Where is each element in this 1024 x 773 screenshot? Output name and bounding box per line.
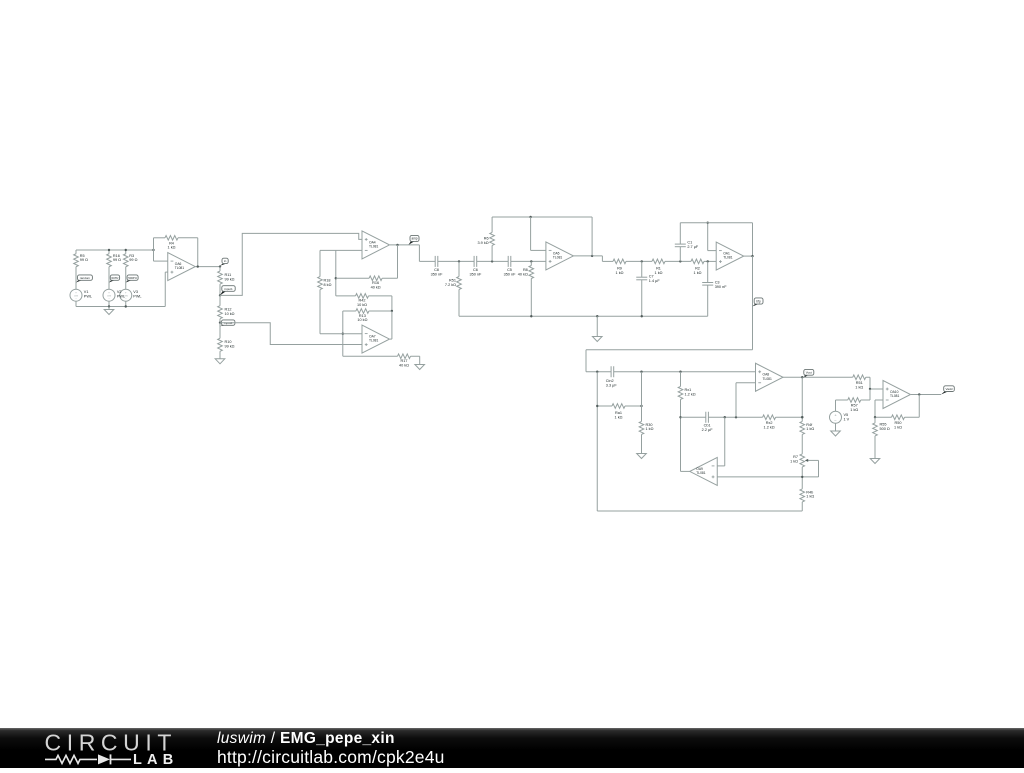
- svg-text:Rx2: Rx2: [766, 421, 773, 425]
- svg-text:TL081: TL081: [763, 377, 773, 381]
- svg-text:R1: R1: [656, 267, 661, 271]
- svg-text:R16: R16: [372, 281, 379, 285]
- svg-text:C8: C8: [434, 268, 439, 272]
- svg-text:R4b: R4b: [806, 490, 813, 494]
- svg-text:PWL: PWL: [133, 295, 141, 299]
- svg-text:R8: R8: [523, 268, 528, 272]
- svg-text:R6: R6: [484, 237, 489, 241]
- svg-text:input1: input1: [224, 287, 233, 291]
- svg-text:10 kΩ: 10 kΩ: [357, 318, 367, 322]
- svg-text:TL081: TL081: [890, 394, 900, 398]
- svg-text:3.9 kΩ: 3.9 kΩ: [478, 241, 489, 245]
- svg-text:PWL: PWL: [117, 295, 125, 299]
- svg-text:R16: R16: [113, 254, 120, 258]
- svg-text:R50: R50: [895, 421, 902, 425]
- svg-text:40 kΩ: 40 kΩ: [399, 364, 409, 368]
- svg-text:R17: R17: [401, 359, 408, 363]
- svg-text:1 V: 1 V: [844, 417, 850, 421]
- svg-text:R42: R42: [359, 299, 366, 303]
- svg-text:8 kΩ: 8 kΩ: [324, 283, 332, 287]
- svg-text:TL081: TL081: [696, 471, 706, 475]
- svg-text:R10: R10: [225, 340, 232, 344]
- svg-text:R30: R30: [646, 423, 653, 427]
- svg-text:7.2 kΩ: 7.2 kΩ: [445, 283, 456, 287]
- svg-text:random: random: [80, 276, 91, 280]
- svg-text:R5: R5: [80, 254, 85, 258]
- svg-text:99 Ω: 99 Ω: [113, 258, 121, 262]
- svg-text:R51: R51: [449, 279, 456, 283]
- svg-text:V5: V5: [844, 413, 849, 417]
- svg-text:R13: R13: [359, 314, 366, 318]
- svg-text:1 kΩ: 1 kΩ: [655, 271, 663, 275]
- svg-text:R2: R2: [695, 267, 700, 271]
- svg-text:1 kΩ: 1 kΩ: [855, 385, 863, 389]
- svg-text:500Hz: 500Hz: [128, 276, 137, 280]
- svg-text:350 nF: 350 nF: [431, 273, 444, 277]
- svg-text:TL081: TL081: [369, 339, 379, 343]
- svg-text:99 kΩ: 99 kΩ: [225, 344, 235, 348]
- svg-text:TL081: TL081: [723, 256, 733, 260]
- svg-text:C1: C1: [687, 240, 692, 244]
- svg-text:C6: C6: [473, 268, 478, 272]
- svg-text:C3: C3: [715, 280, 720, 284]
- svg-text:Cb1: Cb1: [704, 424, 711, 428]
- svg-text:1 kΩ: 1 kΩ: [646, 427, 654, 431]
- svg-text:amp: amp: [411, 237, 417, 241]
- svg-text:Cin2: Cin2: [606, 379, 614, 383]
- svg-text:60Hz: 60Hz: [111, 276, 119, 280]
- svg-text:Ra1: Ra1: [615, 411, 622, 415]
- svg-text:500 Ω: 500 Ω: [880, 427, 890, 431]
- svg-text:2.2 μF: 2.2 μF: [702, 428, 714, 432]
- svg-text:350 nF: 350 nF: [469, 273, 482, 277]
- svg-text:C5: C5: [507, 268, 512, 272]
- svg-text:3.3 μF: 3.3 μF: [606, 383, 618, 387]
- svg-text:1 kΩ: 1 kΩ: [615, 416, 623, 420]
- svg-text:99 Ω: 99 Ω: [129, 258, 137, 262]
- svg-text:99 Ω: 99 Ω: [80, 258, 88, 262]
- svg-text:40 kΩ: 40 kΩ: [371, 286, 381, 290]
- svg-text:R3: R3: [129, 254, 134, 258]
- svg-text:350 nF: 350 nF: [504, 273, 517, 277]
- svg-text:40 kΩ: 40 kΩ: [518, 272, 528, 276]
- svg-text:V1: V1: [84, 290, 89, 294]
- svg-text:TL081: TL081: [553, 256, 563, 260]
- svg-text:R57: R57: [851, 404, 858, 408]
- svg-text:Vadd: Vadd: [946, 387, 953, 391]
- svg-text:1 kΩ: 1 kΩ: [694, 271, 702, 275]
- svg-text:390 nF: 390 nF: [715, 285, 728, 289]
- svg-text:1 kΩ: 1 kΩ: [790, 460, 798, 464]
- svg-text:1 kΩ: 1 kΩ: [806, 495, 814, 499]
- svg-text:R18: R18: [324, 279, 331, 283]
- svg-text:1 kΩ: 1 kΩ: [616, 271, 624, 275]
- svg-text:1 kΩ: 1 kΩ: [850, 408, 858, 412]
- svg-text:1 kΩ: 1 kΩ: [894, 426, 902, 430]
- svg-text:R11: R11: [225, 273, 232, 277]
- svg-text:1.4 μF: 1.4 μF: [649, 279, 661, 283]
- svg-text:R7: R7: [793, 455, 798, 459]
- svg-text:TL081: TL081: [369, 245, 379, 249]
- svg-text:R12: R12: [225, 307, 232, 311]
- svg-text:1 kΩ: 1 kΩ: [806, 427, 814, 431]
- svg-text:R9: R9: [617, 267, 622, 271]
- svg-text:R55: R55: [880, 422, 887, 426]
- svg-text:LAB: LAB: [133, 752, 178, 768]
- svg-text:V3: V3: [133, 290, 138, 294]
- svg-text:1.2 kΩ: 1.2 kΩ: [685, 392, 696, 396]
- svg-text:10 kΩ: 10 kΩ: [225, 312, 235, 316]
- svg-text:in: in: [224, 259, 227, 263]
- svg-text:Vout: Vout: [806, 371, 812, 375]
- svg-text:TL081: TL081: [175, 266, 185, 270]
- svg-text:bfp: bfp: [756, 299, 761, 303]
- svg-text:PWL: PWL: [84, 295, 92, 299]
- svg-text:C7: C7: [649, 275, 654, 279]
- svg-text:2.7 μF: 2.7 μF: [687, 245, 699, 249]
- svg-text:99 kΩ: 99 kΩ: [225, 277, 235, 281]
- svg-text:10 kΩ: 10 kΩ: [357, 303, 367, 307]
- svg-text:Rx1: Rx1: [685, 388, 692, 392]
- svg-text:R4f: R4f: [806, 423, 813, 427]
- svg-text:1 kΩ: 1 kΩ: [168, 246, 176, 250]
- svg-text:R4: R4: [169, 241, 174, 245]
- svg-text:R51: R51: [856, 381, 863, 385]
- svg-text:1.2 kΩ: 1.2 kΩ: [764, 426, 775, 430]
- svg-text:V2: V2: [117, 290, 122, 294]
